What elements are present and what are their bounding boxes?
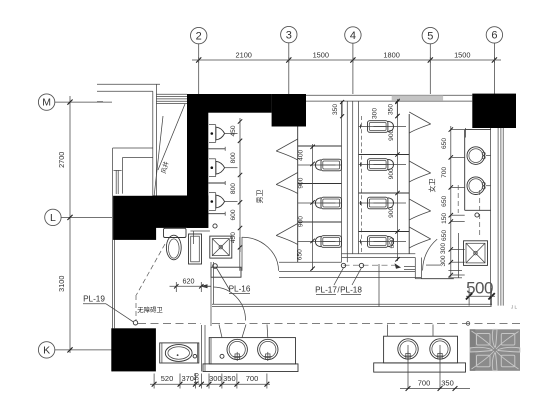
grid bubble 5 xyxy=(422,27,438,94)
PL-16 leader and label xyxy=(217,268,251,294)
stub below NE block xyxy=(465,128,467,138)
watermark logo xyxy=(470,329,520,371)
black wall: north bar left part xyxy=(187,94,272,113)
counter B basin 1 xyxy=(398,339,418,361)
svg-text:K: K xyxy=(43,345,50,357)
wash area dashed pipe xyxy=(479,190,481,235)
svg-text:900: 900 xyxy=(388,168,395,179)
svg-text:3: 3 xyxy=(286,29,292,41)
svg-text:700: 700 xyxy=(441,167,448,178)
men room sill line xyxy=(279,261,342,263)
vestibule post xyxy=(415,258,421,279)
svg-text:900: 900 xyxy=(388,129,395,140)
women entry threshold dash xyxy=(426,264,440,266)
svg-text:600: 600 xyxy=(230,209,237,220)
svg-text:1800: 1800 xyxy=(383,50,399,59)
svg-text:150: 150 xyxy=(441,213,448,224)
grid bubble 4 xyxy=(345,27,361,94)
north wall double line xyxy=(306,95,472,101)
east wall lines xyxy=(491,128,504,306)
svg-text:男卫: 男卫 xyxy=(256,190,264,204)
svg-text:620: 620 xyxy=(183,277,195,286)
PL-19 label and leader xyxy=(83,295,134,323)
svg-text:350: 350 xyxy=(223,374,236,383)
corridor partition line xyxy=(378,264,380,306)
women stall partition 1 xyxy=(359,154,410,156)
black wall: south-west pier xyxy=(111,328,156,371)
accessible counter xyxy=(160,343,199,363)
dimension string 700/350 xyxy=(400,378,470,391)
middle plumbing wall xyxy=(342,101,359,262)
grid bubble 2 xyxy=(191,27,207,94)
vestibule wall line xyxy=(421,278,453,280)
pipe riser PL-19 circle xyxy=(133,321,137,325)
dashed pipe line left segment xyxy=(138,322,201,324)
PL-17 PL-18 labels xyxy=(315,268,362,295)
floor drain dot wash xyxy=(475,213,479,217)
svg-text:650: 650 xyxy=(441,230,448,241)
accessible WC shelf xyxy=(189,234,202,264)
svg-text:700: 700 xyxy=(418,378,431,387)
dimension 350 (women top) xyxy=(387,100,399,118)
counter B ledge xyxy=(374,363,466,372)
dimension 620 xyxy=(170,277,212,293)
svg-text:J L: J L xyxy=(511,305,518,310)
women squat toilet WC3 xyxy=(359,197,407,209)
dimension string 400/900/900/650 (men) xyxy=(297,144,315,271)
ledge under wall bar xyxy=(190,231,210,244)
counter B basin 2 xyxy=(430,339,450,361)
svg-text:PL-17: PL-17 xyxy=(315,286,337,295)
wash basin B1 xyxy=(467,147,491,165)
dimension string 520/370/150/300/350/700 xyxy=(150,373,270,389)
air shaft diagonal xyxy=(153,104,185,206)
svg-text:370: 370 xyxy=(181,374,194,383)
svg-text:1500: 1500 xyxy=(313,50,329,59)
men squat toilet WC3 xyxy=(298,236,342,248)
black wall: left block xyxy=(113,196,156,240)
left dimension string 2700/3100 xyxy=(57,96,72,353)
men entry door swing arc xyxy=(242,237,279,270)
urinal partition 3 xyxy=(208,212,225,216)
women entry door swing arc xyxy=(423,239,438,270)
men stall partition 1 xyxy=(298,145,342,147)
svg-text:M: M xyxy=(42,97,51,109)
counter A ledge xyxy=(203,364,298,372)
svg-text:450: 450 xyxy=(230,232,237,243)
svg-text:3100: 3100 xyxy=(57,276,66,292)
wall east of women door xyxy=(448,271,462,278)
wash area dashed pipe 2 xyxy=(457,185,459,213)
black wall: west column xyxy=(187,94,208,228)
urinal partition 1 xyxy=(208,147,225,151)
svg-text:PL-18: PL-18 xyxy=(340,286,362,295)
women squat toilet WC1 xyxy=(359,121,407,133)
svg-text:700: 700 xyxy=(246,374,259,383)
women stall front partition line xyxy=(408,114,410,254)
pipe riser PL-18 circle xyxy=(359,263,363,267)
women stall partition 2 xyxy=(359,192,410,194)
wash basin B2 xyxy=(467,177,491,195)
pipe connectors counter A xyxy=(219,325,268,338)
grid bubble L xyxy=(45,209,112,225)
top dimension string 2100/1500/1800/1500 xyxy=(192,50,501,63)
svg-text:300: 300 xyxy=(440,255,447,266)
dimension string 900/900/900/650 (women) xyxy=(388,99,400,262)
grid bubble 6 xyxy=(486,27,502,94)
svg-text:650: 650 xyxy=(389,237,396,248)
dimension string 450/800/800/600/450 xyxy=(230,118,242,252)
counter A outline xyxy=(209,338,295,364)
corridor south wall xyxy=(212,304,492,306)
svg-text:4: 4 xyxy=(350,30,356,42)
window/louver strip in north wall xyxy=(392,95,443,100)
men stall front partition line xyxy=(297,127,299,263)
svg-text:5: 5 xyxy=(427,30,433,42)
floor drain pan (men) xyxy=(210,236,232,258)
men entry door leaf xyxy=(240,237,242,271)
urinal U2 xyxy=(209,159,238,177)
wall lines top-left xyxy=(97,84,160,101)
dimension 500 line xyxy=(466,288,495,306)
small circle on pipe line xyxy=(466,322,470,326)
women south wall upper xyxy=(342,254,416,258)
urinal U3 xyxy=(209,193,238,211)
svg-text:1500: 1500 xyxy=(454,50,470,59)
grid bubble 3 xyxy=(281,26,297,94)
women stall door D3 xyxy=(409,199,431,220)
men stall door D3 xyxy=(276,224,298,245)
svg-text:2700: 2700 xyxy=(57,152,66,168)
svg-text:900: 900 xyxy=(298,177,305,188)
women squat toilet WC2 xyxy=(359,159,407,171)
wash counter outline xyxy=(465,130,491,211)
svg-text:350: 350 xyxy=(387,104,394,115)
long dashed pipe line xyxy=(212,322,520,324)
floor drain dot men aisle xyxy=(213,224,217,228)
counter A basin 2 xyxy=(258,339,278,361)
svg-text:900: 900 xyxy=(298,216,305,227)
pipe riser PL-16 circle xyxy=(213,264,218,269)
counter A basin 1 xyxy=(227,339,247,361)
svg-text:PL-19: PL-19 xyxy=(83,295,105,304)
svg-text:150: 150 xyxy=(193,373,200,385)
shaft west wall xyxy=(153,84,157,202)
pipe riser PL-17 circle xyxy=(341,263,345,267)
svg-text:2: 2 xyxy=(196,30,202,42)
men squat toilet WC1 xyxy=(298,159,342,171)
svg-text:300: 300 xyxy=(209,374,222,383)
accessible WC clearance dashed vertical xyxy=(135,295,137,321)
women stall door D4 xyxy=(409,227,431,248)
svg-text:2100: 2100 xyxy=(235,50,251,59)
grid bubble K xyxy=(38,342,112,358)
women squat toilet WC4 xyxy=(359,236,407,248)
men squat toilet WC2 xyxy=(298,197,342,209)
dimension 350 (men top) xyxy=(332,100,344,118)
grid bubble M xyxy=(38,94,112,110)
wall between counters xyxy=(202,325,206,371)
south wall of men room xyxy=(279,272,421,278)
neighbour room outer wall xyxy=(113,148,153,158)
oval basin xyxy=(165,345,196,362)
svg-text:6: 6 xyxy=(491,30,497,42)
black wall: shaft floor bar xyxy=(153,196,209,228)
accessible WC toilet tank xyxy=(164,228,187,237)
drain pipe arrowhead xyxy=(395,263,402,269)
dimension string 650/700/650/150/650/300/300 xyxy=(440,126,465,277)
women stall partition 3 xyxy=(359,231,410,233)
floor drain pan (wash) xyxy=(464,241,488,266)
men stall partition 3 xyxy=(298,221,342,223)
women stall door D1 xyxy=(409,112,431,133)
svg-text:450: 450 xyxy=(230,125,237,136)
women stall door D2 xyxy=(409,161,431,182)
wash area jamb line xyxy=(458,233,460,278)
west exterior wall xyxy=(113,148,115,371)
neighbour room inner wall xyxy=(122,158,124,194)
svg-text:女卫: 女卫 xyxy=(428,179,437,193)
pipe connector counter B xyxy=(388,325,434,337)
svg-text:900: 900 xyxy=(388,206,395,217)
svg-text:300: 300 xyxy=(372,108,379,119)
svg-text:300: 300 xyxy=(440,243,447,254)
svg-text:800: 800 xyxy=(230,183,237,194)
women dashed pipe line xyxy=(361,116,363,254)
svg-text:350: 350 xyxy=(332,104,339,115)
black wall: north-east block xyxy=(472,94,516,128)
urinal partition 2 xyxy=(208,181,225,185)
urinal U1 xyxy=(209,125,238,143)
dashed drain pipe (PL-17/18) xyxy=(344,264,398,266)
svg-text:无障碍卫: 无障碍卫 xyxy=(137,305,163,314)
svg-text:350: 350 xyxy=(441,378,454,387)
floor drain dot counter A xyxy=(220,354,224,358)
black wall: north bar right part xyxy=(272,94,306,127)
svg-text:650: 650 xyxy=(441,195,448,206)
counter B outline xyxy=(384,336,458,363)
niche wall below drain xyxy=(211,267,241,277)
svg-text:PL-16: PL-16 xyxy=(229,285,251,294)
accessible WC clearance dashed diagonal xyxy=(136,244,165,295)
svg-text:650: 650 xyxy=(297,249,304,260)
accessible WC toilet bowl xyxy=(166,235,181,260)
men stall door D1 xyxy=(276,139,298,160)
south wall stub xyxy=(404,267,415,270)
neighbour room post xyxy=(114,170,122,194)
jamb wall left of corridor xyxy=(211,262,214,326)
svg-text:650: 650 xyxy=(441,138,448,149)
men stall door D2 xyxy=(276,173,298,194)
svg-text:L: L xyxy=(50,212,56,224)
extension lines counter B xyxy=(408,345,440,389)
svg-text:400: 400 xyxy=(298,149,305,160)
svg-text:520: 520 xyxy=(161,374,174,383)
svg-text:800: 800 xyxy=(230,152,237,163)
corridor door swing arc xyxy=(214,287,246,321)
men stall partition 2 xyxy=(298,183,342,185)
louver lines at shaft top xyxy=(156,94,187,103)
